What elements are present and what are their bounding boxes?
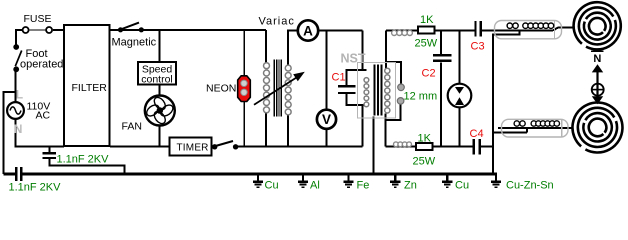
bottom coil form feed wires	[493, 131, 527, 133]
svg-text:FUSE: FUSE	[24, 13, 52, 25]
capacitor plates 1.1nF 2KV vertical	[43, 152, 57, 154]
bottom rail: C4 to vertical	[480, 146, 493, 148]
TIMER box	[170, 138, 212, 156]
voltmeter V	[317, 110, 336, 129]
ground electrode Cu-Zn-Sn	[491, 175, 501, 187]
variac adjustment arrow	[254, 78, 297, 105]
wire from spark gap lower electrode	[385, 104, 400, 120]
svg-text:operated: operated	[20, 59, 63, 71]
resistor R bottom 1K 25W	[416, 143, 433, 150]
NEON lamp electrodes circles	[241, 80, 247, 86]
capacitor C2 top stub	[440, 31, 442, 55]
discharge tube electrodes triangles	[455, 87, 464, 94]
resistor R top 1K 25W	[418, 27, 435, 34]
top rail right: resistor to C3	[435, 30, 474, 32]
svg-text:Zn: Zn	[404, 180, 417, 192]
spark gap upper electrode	[398, 84, 405, 91]
FAN symbol circle	[145, 96, 175, 126]
foot switch contact dots	[13, 44, 19, 50]
magnetic switch lever	[121, 23, 140, 30]
NST primary top lead	[362, 31, 364, 71]
wire fuse to FILTER	[53, 29, 65, 31]
magnetic switch dots	[118, 27, 123, 32]
capacitor C2 bottom stub	[440, 63, 442, 147]
timer switch dots	[212, 144, 217, 149]
NST primary winding	[364, 78, 369, 83]
discharge tube circle	[448, 84, 472, 108]
svg-text:FILTER: FILTER	[72, 82, 108, 94]
ground electrode Cu	[442, 175, 452, 187]
lower spiral antenna	[572, 103, 622, 153]
AC sine wave	[10, 107, 21, 114]
wire tap down to voltmeter	[326, 31, 328, 110]
Speed control box	[138, 62, 176, 85]
variac right winding	[285, 65, 291, 71]
top rail right: C3 to coil form	[482, 30, 553, 32]
svg-text:FAN: FAN	[122, 121, 142, 133]
wire tap down to Speed control	[159, 30, 161, 63]
ammeter A	[298, 20, 318, 40]
top spiral antenna	[574, 2, 621, 49]
foot operated switch lever	[15, 51, 21, 67]
svg-text:Cu-Zn-Sn: Cu-Zn-Sn	[506, 180, 554, 192]
svg-text:C4: C4	[470, 128, 484, 140]
wire N from AC source to FILTER bottom	[16, 120, 65, 147]
bottom rail: resistor to C4	[433, 146, 473, 148]
NST core lines	[375, 65, 382, 116]
bottom RF choke	[394, 142, 399, 147]
capacitor C2 plates	[433, 54, 452, 56]
svg-text:12 mm: 12 mm	[404, 91, 438, 103]
double arrow down head	[592, 96, 603, 104]
AC source circle	[7, 102, 24, 119]
svg-text:N: N	[593, 53, 601, 65]
variac right lead top to ammeter	[288, 31, 298, 66]
NST secondary winding	[385, 68, 390, 73]
svg-text:Cu: Cu	[455, 180, 469, 192]
svg-text:N: N	[14, 122, 23, 136]
svg-text:25W: 25W	[413, 156, 436, 168]
wire ammeter to NST primary drop	[319, 30, 363, 32]
svg-text:Variac: Variac	[259, 15, 295, 27]
svg-text:NEON: NEON	[206, 82, 236, 94]
spark gap lower electrode	[397, 98, 404, 105]
capacitor C4 plates	[473, 139, 475, 155]
coil form return wire down to ground bus	[493, 31, 520, 175]
svg-text:Cu: Cu	[265, 180, 279, 192]
bottom rail: NST secondary to resistor	[385, 146, 416, 148]
top coil form windings	[507, 23, 512, 28]
wire FAN to bottom wire	[159, 126, 161, 147]
svg-text:25W: 25W	[415, 38, 438, 50]
discharge tube bottom stub	[459, 107, 461, 147]
NST secondary bottom lead	[384, 114, 386, 147]
svg-text:Al: Al	[310, 180, 320, 192]
svg-text:1K: 1K	[418, 132, 432, 144]
variac left lead top	[265, 30, 267, 63]
timer switch lever	[216, 141, 234, 146]
svg-text:C3: C3	[471, 41, 485, 53]
discharge tube top stub	[459, 31, 461, 86]
svg-text:Magnetic: Magnetic	[112, 36, 157, 48]
N vector label overline	[591, 50, 603, 52]
wire L from foot switch down to AC source	[15, 69, 17, 102]
capacitor C1 plates	[338, 85, 356, 87]
svg-text:1K: 1K	[420, 14, 434, 26]
capacitor C3 plates	[475, 21, 477, 37]
wire to spark gap upper electrode	[386, 62, 401, 84]
wire fuse corner down to foot switch	[16, 30, 22, 45]
fan hub	[157, 107, 164, 114]
svg-text:Fe: Fe	[357, 180, 370, 192]
wire between fuse terminals	[29, 29, 45, 31]
svg-text:NST: NST	[341, 52, 366, 66]
variac left winding	[264, 63, 270, 69]
NST secondary top lead	[385, 31, 387, 69]
bottom wire FILTER to TIMER	[110, 146, 170, 148]
top coil form capsule	[495, 21, 562, 39]
svg-text:AC: AC	[36, 110, 51, 122]
wire NEON branch vertical	[243, 30, 245, 147]
arrow stem	[596, 72, 598, 97]
bottom coil form capsule	[502, 119, 569, 137]
variac core lines	[274, 60, 281, 117]
svg-text:1.1nF 2KV: 1.1nF 2KV	[57, 153, 110, 165]
capacitor C1 loop wires	[347, 70, 367, 86]
NST center tap to ground bus	[373, 117, 375, 175]
variac right lead bottom	[287, 115, 289, 147]
NEON lamp body	[238, 76, 251, 102]
capacitor plates 1.1nF 2KV horizontal in bus	[15, 167, 17, 181]
ground electrode Cu	[253, 175, 263, 187]
capacitor stub lower and wire to bus step	[50, 159, 125, 174]
FILTER box	[64, 25, 110, 146]
wire Speed control to FAN	[159, 85, 161, 96]
svg-text:control: control	[141, 73, 173, 85]
wire coil form to top spiral	[553, 28, 574, 31]
svg-text:TIMER: TIMER	[177, 142, 209, 153]
capacitor stub upper (1.1nF to N wire)	[49, 147, 51, 153]
NST gray outline box	[358, 63, 396, 119]
ground electrode Fe	[343, 175, 353, 187]
NST primary bottom lead	[362, 105, 364, 147]
wire bottom coil form to lower spiral	[556, 127, 573, 129]
fuse symbol circles	[23, 27, 29, 33]
ground electrode Zn	[390, 175, 400, 187]
ground bus left segment	[4, 173, 16, 176]
top rail right: choke to resistor	[386, 30, 418, 32]
bottom wire TIMER switch to Variac and NST primary	[237, 146, 363, 148]
bottom coil form windings	[514, 121, 519, 126]
svg-text:L: L	[16, 87, 23, 101]
svg-text:A: A	[303, 23, 313, 38]
svg-text:C2: C2	[422, 67, 436, 79]
wire tap from L down left side to ground bus	[4, 92, 16, 174]
crossed circle symbol	[592, 84, 604, 96]
ground electrode Al	[298, 175, 308, 187]
top rail from FILTER through Magnetic switch to Variac	[110, 29, 266, 31]
ground bus main segment	[22, 173, 497, 176]
svg-text:V: V	[322, 112, 331, 127]
svg-text:1.1nF 2KV: 1.1nF 2KV	[9, 181, 62, 193]
wire voltmeter bottom	[326, 129, 328, 147]
variac left lead bottom	[265, 113, 267, 147]
double arrow between spirals: up head	[592, 64, 603, 72]
fan blades	[152, 95, 167, 111]
svg-text:C1: C1	[332, 72, 346, 84]
top RF choke	[392, 30, 397, 35]
